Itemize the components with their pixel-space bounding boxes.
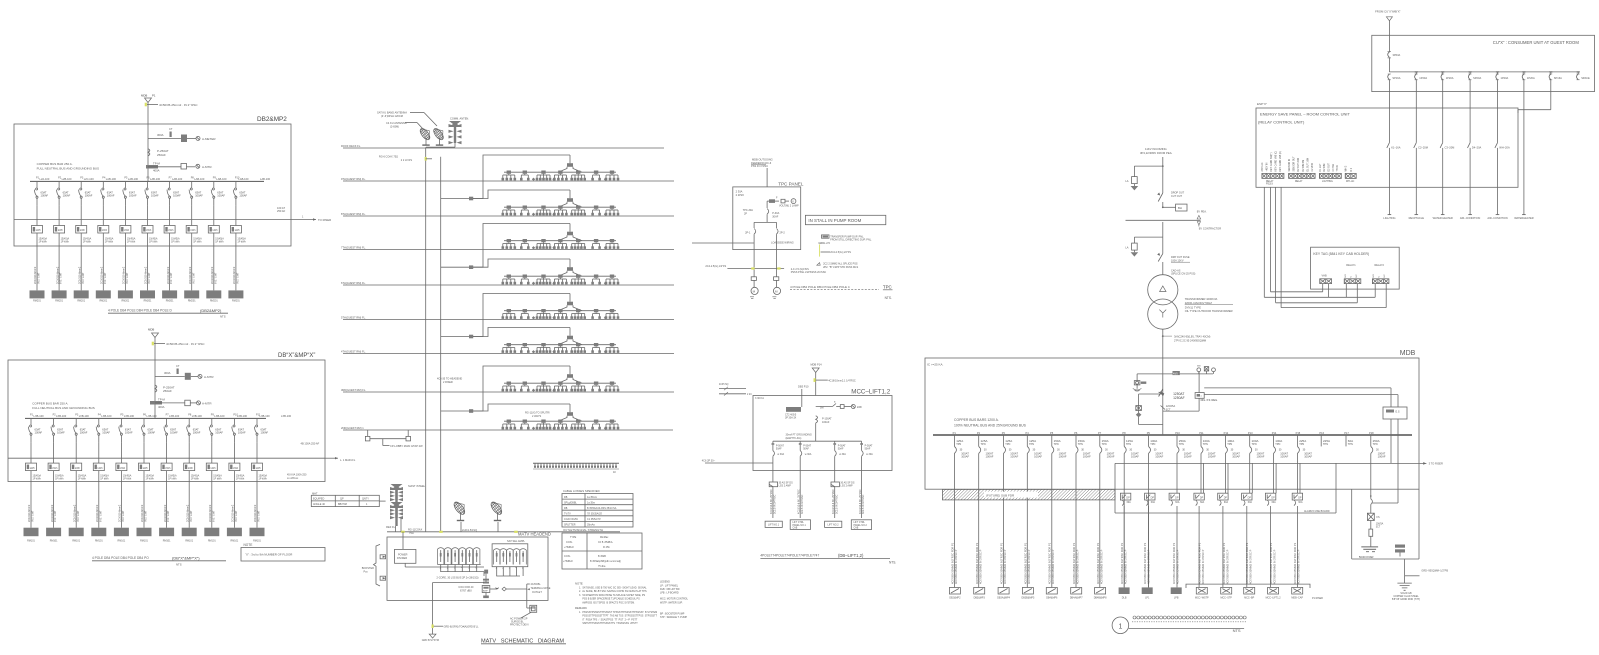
svg-text:1P20A: 1P20A (1527, 76, 1535, 80)
svg-text:BH: BH (1178, 206, 1182, 210)
svg-text:ANGLE 40: ANGLE 40 (313, 503, 326, 506)
svg-text:PSSS PSSL LSPSSSS 2C/SSC: PSSS PSSL LSPSSSS 2C/SSC (791, 271, 827, 274)
svg-text:4C/70/50-35MM2 IN2"RSC FDR P1: 4C/70/50-35MM2 IN2"RSC FDR P1 (1269, 542, 1273, 584)
svg-text:Fl 45b: Fl 45b (603, 546, 610, 549)
svg-text:LXB-100: LXB-100 (237, 414, 248, 418)
svg-text:KEY CARD SW(T): KEY CARD SW(T) (1270, 152, 1273, 171)
svg-text:100AF: 100AF (102, 431, 110, 435)
svg-text:IN 1" EMT: IN 1" EMT (148, 272, 151, 284)
svg-text:100AF: 100AF (125, 431, 133, 435)
MATV floor line 2ND(GUEST RM) 1 (341, 426, 673, 430)
MDB feeder breaker P6 (1074, 431, 1091, 458)
svg-text:100AF: 100AF (1378, 454, 1386, 458)
MDB sub distribution breaker 8 (1292, 493, 1303, 505)
svg-text:50/40 KVAR: 50/40 KVAR (1359, 555, 1374, 559)
svg-text:CP-LOBBY MAIN 4/TAP 2W: CP-LOBBY MAIN 4/TAP 2W (390, 444, 423, 448)
svg-text:QP: QP (340, 498, 344, 501)
PEA meter (1162, 204, 1207, 213)
CU branch breaker SP20A (1468, 72, 1481, 92)
svg-text:kWh: kWh (80, 229, 86, 232)
svg-text:+KEY IN: +KEY IN (1267, 162, 1269, 171)
svg-text:4C/70/50-35MM2 IN2"RSC FDR P1: 4C/70/50-35MM2 IN2"RSC FDR P1 (1172, 542, 1176, 584)
svg-text:RM201: RM201 (122, 300, 130, 303)
svg-text:DIG. P.F. REG.: DIG. P.F. REG. (1201, 398, 1219, 402)
TPC pump breaker 2 (777, 229, 786, 250)
svg-text:MinMax: MinMax (600, 536, 609, 539)
MDB outgoing cable label DB3&amp;MP3 (974, 542, 986, 599)
svg-text:SENSOR OUT: SENSOR OUT (1294, 156, 1296, 172)
svg-text:TPN: TPN (1054, 443, 1059, 446)
MDB metering instruments (1163, 366, 1216, 375)
MATV bottom outlet strip (533, 463, 619, 474)
svg-text:400A: 400A (158, 405, 165, 409)
svg-text:IN 1" EMT: IN 1" EMT (126, 272, 129, 284)
svg-text:DB2&MP2: DB2&MP2 (949, 597, 961, 600)
MDB feeder breaker P16 (1319, 431, 1330, 446)
svg-text:WH 2: WH 2 (1346, 165, 1348, 171)
svg-text:MCC–LIFT1,2: MCC–LIFT1,2 (851, 389, 890, 396)
MCC branch breaker 2 (799, 441, 812, 470)
DBX&MPX branch breaker P3 (74, 414, 90, 443)
svg-text:100AF: 100AF (1208, 454, 1216, 458)
MATV mid note 2 (525, 412, 550, 419)
svg-text:P1: P1 (152, 94, 156, 98)
svg-text:100AF: 100AF (1083, 454, 1091, 458)
DB2&MP2 outgoing cable 4 (96, 266, 111, 302)
svg-text:C3–20M: C3–20M (1445, 146, 1455, 150)
load label AIR&#8211;CONDITION (1460, 215, 1480, 221)
svg-text:2P-1: 2P-1 (745, 232, 751, 235)
svg-text:OIL TYPE OUTDOOR TRANSFORMER: OIL TYPE OUTDOOR TRANSFORMER (1185, 309, 1233, 313)
svg-text:4C/70/50-35MM2 IN 3"RSC P: 4C/70/50-35MM2 IN 3"RSC P (1099, 549, 1103, 584)
MDB outgoing cable label MCC&#8211;STP (1220, 542, 1232, 599)
MATV splitter tree floor 7 (473, 366, 619, 411)
MCC branch breaker 4 (860, 441, 873, 470)
feeder from MDB to DBX&MPX (148, 328, 205, 419)
svg-text:3C2.5 IN 3/4"RSC: 3C2.5 IN 3/4"RSC (862, 494, 865, 514)
svg-text:300A: 300A (164, 371, 171, 375)
svg-text:100AF: 100AF (961, 454, 969, 458)
svg-text:1P kWh: 1P kWh (215, 241, 224, 244)
svg-text:SSPSTTPSSSSTTPSSSSTTS TSSSSSS: SSPSTTPSSSSTTPSSSSTTS TSSSSSSS 2PSTT (579, 622, 638, 625)
svg-text:kWh: kWh (52, 467, 58, 470)
DB2&MP2 kWh meter 7 (164, 205, 180, 290)
MDB feeder breaker P14 (1272, 431, 1289, 458)
svg-text:100AF: 100AF (85, 194, 93, 198)
DB2&MP2 outgoing cable 8 (184, 266, 199, 302)
DBX&MPX outgoing cable 5 (114, 504, 129, 542)
svg-text:P6: P6 (1074, 431, 1078, 435)
svg-text:MCC–LIFT1,2: MCC–LIFT1,2 (1266, 597, 1282, 600)
svg-text:4C/70/50-35MM2 IN 3"RSC P: 4C/70/50-35MM2 IN 3"RSC P (1248, 549, 1252, 584)
svg-text:kWh: kWh (211, 467, 217, 470)
svg-text:1P kWh: 1P kWh (259, 478, 268, 481)
svg-text:SPLg/DBBL: SPLg/DBBL (564, 501, 577, 504)
svg-text:50AF: 50AF (838, 448, 844, 451)
svg-text:MDB: MDB (141, 94, 147, 98)
svg-text:2 2 LV RS: 2 2 LV RS (401, 159, 413, 162)
DBX&MPX branch breaker P7 (164, 414, 180, 443)
svg-text:RM101: RM101 (72, 540, 80, 543)
svg-text:(SPLICE CM 25 PSS): (SPLICE CM 25 PSS) (1171, 273, 1195, 276)
DB2&MP2 branch breaker P4 (101, 177, 117, 206)
svg-text:(DB“X”&MP“X”): (DB“X”&MP“X”) (172, 555, 200, 560)
svg-text:IN 1" EMT: IN 1" EMT (122, 510, 125, 522)
MATV title (481, 639, 566, 645)
MDB feeder breaker P8 (1122, 431, 1139, 458)
svg-text:TPN: TPN (1275, 443, 1280, 446)
antenna leader notes (377, 111, 437, 130)
satellite dish 2 (roof) (432, 125, 447, 145)
svg-text:D2 OUT 20M: D2 OUT 20M (1298, 158, 1300, 172)
svg-text:P1: P1 (953, 431, 957, 435)
outlet level table (562, 533, 642, 569)
svg-text:250AF: 250AF (163, 389, 172, 393)
MATV distribution trunk (440, 157, 442, 532)
svg-text:DYN11 TYPE: DYN11 TYPE (1185, 305, 1201, 309)
svg-text:LXB-100: LXB-100 (147, 414, 158, 418)
DBX&MPX branch breaker P8 (187, 414, 203, 443)
DB2&MP2 branch breaker P2 (57, 177, 72, 206)
MCC incoming stubs (719, 384, 764, 400)
svg-text:60A: 60A (1298, 501, 1303, 504)
svg-text:VOLT(M) 2 LAMP: VOLT(M) 2 LAMP (779, 205, 799, 208)
DBX&MPX outgoing cable 8 (182, 504, 197, 542)
MATV splitter tree floor 1 (473, 155, 619, 199)
svg-text:LAB-100: LAB-100 (216, 177, 227, 181)
svg-text:P9: P9 (1147, 431, 1151, 435)
svg-text:9TH(GUEST RM) FL.: 9TH(GUEST RM) FL. (341, 177, 366, 181)
svg-text:100AF: 100AF (1010, 454, 1018, 458)
svg-text:IN STALL IN PUMP ROOM: IN STALL IN PUMP ROOM (808, 218, 861, 223)
svg-text:LA: LA (1125, 246, 1128, 250)
MATV splitter tree floor 8 (473, 404, 619, 430)
DB2&MP2 spare label (260, 177, 271, 181)
HV disconnect switch 1 (1157, 192, 1184, 208)
svg-text:MHT: MHT (312, 492, 318, 495)
svg-text:100A 12KV: 100A 12KV (1171, 259, 1184, 262)
svg-text:1P kWh: 1P kWh (191, 478, 200, 481)
svg-text:30AF: 30AF (772, 215, 778, 218)
svg-text:1P kWh: 1P kWh (78, 478, 87, 481)
svg-text:PROTECT DEVI: PROTECT DEVI (510, 624, 529, 627)
svg-text:60A: 60A (1200, 501, 1205, 504)
svg-text:DB2&MP2: DB2&MP2 (257, 116, 287, 123)
load label LIGHTING (1383, 215, 1395, 221)
headend collector node (437, 570, 489, 580)
svg-text:A-MTR: A-MTR (202, 402, 212, 406)
svg-text:IN 1" EMT: IN 1" EMT (237, 272, 240, 284)
svg-text:w 30A: w 30A (866, 453, 873, 456)
svg-text:4B 100A 250 AF: 4B 100A 250 AF (301, 442, 320, 446)
svg-text:FULL NEUTRAL BUS AND GROUNDING: FULL NEUTRAL BUS AND GROUNDING BUS (32, 406, 94, 410)
svg-text:DB4B&MP8: DB4B&MP8 (1094, 597, 1107, 600)
svg-text:DB: DB (564, 496, 568, 499)
MATV splitter tree floor 2 (473, 190, 619, 216)
load label AIR&#8211;CONDITION (1487, 215, 1507, 221)
svg-text:TPN: TPN (1005, 443, 1010, 446)
svg-text:LXB-100: LXB-100 (101, 414, 112, 418)
svg-text:(FUTURE) SUB FDR: (FUTURE) SUB FDR (986, 494, 1015, 498)
svg-text:NC: NC (1356, 274, 1358, 278)
svg-text:IN 1" EMT: IN 1" EMT (104, 272, 107, 284)
svg-text:1250AF: 1250AF (1173, 396, 1185, 400)
svg-text:kWh: kWh (146, 229, 152, 232)
MDB feeder breaker P5 (1050, 431, 1067, 458)
MCC sub bus (773, 423, 862, 441)
MDB sub distribution breaker 6 (1242, 493, 1253, 505)
lift load box 1 (765, 521, 782, 527)
feeder from MDB to DB2&MP2 (141, 94, 198, 182)
headend output attenuator and splitter (490, 587, 527, 591)
MATV splitter tree floor 6 (473, 328, 619, 354)
svg-text:LXB-100: LXB-100 (281, 414, 292, 418)
svg-text:D4–20A: D4–20A (1472, 146, 1482, 150)
svg-text:QNTY: QNTY (362, 498, 369, 501)
sub row label (1304, 510, 1330, 513)
headend antenna mast (386, 484, 426, 532)
svg-text:RM101: RM101 (253, 540, 261, 543)
DBX&MPX busbar (25, 417, 266, 419)
capacitor fuse (1367, 513, 1383, 547)
capacitor bank enclosure (1352, 489, 1419, 559)
DB2&MP2 kWh meter 3 (76, 205, 92, 290)
svg-text:5/8"X8' GRND ROD (TYP): 5/8"X8' GRND ROD (TYP) (1392, 598, 1420, 601)
key tag box (1311, 247, 1400, 289)
DB2&MP2 kWh meter 4 (98, 205, 114, 290)
svg-text:100AF: 100AF (1059, 454, 1067, 458)
svg-text:4C/6CBL: 4C/6CBL (531, 583, 542, 586)
second breaker row box (1115, 462, 1443, 513)
DB2&MP2 outgoing cable 9 (206, 266, 221, 302)
svg-text:kWh: kWh (233, 467, 239, 470)
svg-text:KEY CARD VAB (C): KEY CARD VAB (C) (1274, 151, 1277, 172)
svg-text:NTS: NTS (1233, 628, 1241, 633)
svg-text:100AF: 100AF (1155, 454, 1163, 458)
ESP relay contact K1&#8211;16A (1387, 92, 1401, 215)
svg-text:WATER HEATER: WATER HEATER (1433, 216, 1453, 220)
svg-text:BB/76M: BB/76M (338, 503, 347, 506)
svg-text:RM101: RM101 (140, 540, 148, 543)
svg-text:2P2. "B" LSPP STD PASS MLS: 2P2. "B" LSPP STD PASS MLS (823, 266, 858, 269)
svg-text:RM101: RM101 (95, 540, 103, 543)
svg-text:TPC PANEL: TPC PANEL (778, 182, 804, 187)
svg-text:3. TA RISERTON SPACYRISE TA S: 3. TA RISERTON SPACYRISE TA SPLACE SCHET… (579, 594, 645, 597)
svg-text:kWh: kWh (124, 229, 130, 232)
svg-text:TPC: TPC (883, 284, 892, 289)
svg-text:LP1: LP1 (1145, 597, 1150, 600)
transformer T1 (1148, 275, 1233, 330)
MDB sub distribution breaker 4 (1194, 493, 1205, 505)
svg-text:1P kWh: 1P kWh (55, 478, 64, 481)
svg-text:4C/70/50-35MM2 IN 3"RSC P: 4C/70/50-35MM2 IN 3"RSC P (1175, 549, 1179, 584)
svg-text:60A: 60A (1224, 501, 1229, 504)
svg-text:SAT SEL AMPL: SAT SEL AMPL (507, 539, 526, 543)
ESP terminal group 3 (1320, 162, 1342, 182)
svg-text:IN 1" EMT: IN 1" EMT (77, 510, 80, 522)
svg-text:4C/70/50-35MM2 IN 3"RSC P: 4C/70/50-35MM2 IN 3"RSC P (1272, 549, 1276, 584)
svg-text:WSTP: WATER SUP.: WSTP: WATER SUP. (660, 602, 683, 605)
headend launch amplifier (458, 574, 489, 599)
DB2&MP2 outgoing cable 6 (140, 266, 155, 302)
svg-text:RM101: RM101 (50, 540, 58, 543)
svg-text:(DB–LIFT1,2): (DB–LIFT1,2) (838, 553, 864, 558)
svg-text:LAB-100: LAB-100 (260, 177, 271, 181)
svg-text:1F: 1F (613, 470, 616, 474)
svg-text:1P kWh: 1P kWh (123, 478, 132, 481)
MATV floor line 5TH(GUEST RM) FL. (341, 316, 674, 320)
DB2&MP2 branch breaker P10 (233, 177, 249, 206)
svg-text:100AF: 100AF (193, 431, 201, 435)
svg-text:P8: P8 (1122, 431, 1126, 435)
ESP relay contact C2&#8211;20M (1414, 92, 1428, 215)
svg-text:100AF: 100AF (261, 431, 269, 435)
MDB main CT (1161, 405, 1176, 411)
DB2&MP2 meter section divider (14, 219, 291, 221)
MCC main branch instruments (816, 401, 863, 410)
svg-text:TERMINA 2-RISE: TERMINA 2-RISE (531, 587, 551, 590)
svg-text:TPN: TPN (1126, 443, 1131, 446)
DBX&MPX branch 2 (150, 398, 212, 410)
MATV riser tap 1 (441, 197, 474, 201)
svg-text:40/5: 40/5 (1173, 372, 1178, 375)
svg-text:SP16A: SP16A (1554, 76, 1562, 80)
svg-text:1P kWh: 1P kWh (236, 478, 245, 481)
svg-text:3 TO RISER: 3 TO RISER (1429, 462, 1443, 466)
MDB feeder breaker P7 (1098, 431, 1115, 458)
svg-text:LIGHTING: LIGHTING (1383, 216, 1395, 220)
svg-text:NTS: NTS (220, 315, 226, 319)
DBX&MPX kWh meter 10 (229, 442, 245, 527)
DBX&MPX meter divider (8, 457, 325, 459)
svg-text:KEY CARD VAB (C): KEY CARD VAB (C) (1279, 151, 1282, 172)
svg-text:“X” : 3rd to 9th NUMBER OF FLO: “X” : 3rd to 9th NUMBER OF FLOOR (245, 553, 292, 557)
svg-text:1P kWh: 1P kWh (39, 241, 48, 244)
headend right notes (527, 583, 551, 594)
key tag terminal block relay1 (1344, 274, 1361, 284)
svg-text:AIR–CONDITION: AIR–CONDITION (1487, 216, 1507, 220)
svg-text:A-METER: A-METER (202, 137, 216, 141)
DBX&MPX branch breaker P1 (28, 414, 44, 443)
key tag terminal block relay2 (1372, 274, 1389, 284)
svg-text:100% NEUTRAL BUS AND 25%GROUND: 100% NEUTRAL BUS AND 25%GROUND BUS (954, 423, 1027, 427)
svg-text:ENERGY SAVE PANEL – ROOM CONTR: ENERGY SAVE PANEL – ROOM CONTROL UNIT (1260, 112, 1351, 117)
lift load box 2 (790, 520, 810, 530)
svg-text:RELAY: RELAY (1295, 180, 1303, 183)
svg-text:NOTE: NOTE (575, 582, 583, 586)
transfer pump right notes (817, 235, 872, 269)
svg-text:CUT OUT: CUT OUT (1171, 195, 1183, 198)
svg-text:COXL: COXL (566, 541, 573, 544)
svg-text:100AF: 100AF (173, 194, 181, 198)
svg-text:4C/70/50-35MM2 IN2"RSC FDR P1: 4C/70/50-35MM2 IN2"RSC FDR P1 (951, 542, 955, 584)
MATV 1st floor label (340, 458, 356, 462)
DB2&MP2 branch 2 (kwh meter) (146, 162, 212, 173)
MCC-LIFT enclosure (753, 389, 892, 471)
svg-text:IN 1" EMT: IN 1" EMT (60, 272, 63, 284)
svg-text:100AF: 100AF (195, 194, 203, 198)
booster bracket (362, 544, 386, 586)
svg-text:1a 35m: 1a 35m (587, 501, 595, 504)
svg-text:4C/70/50-35MM2 IN2"RSC FDR P1: 4C/70/50-35MM2 IN2"RSC FDR P1 (1222, 542, 1226, 584)
svg-text:TO RISER: TO RISER (318, 218, 331, 222)
ESP enclosure (1256, 108, 1518, 187)
TPC split node (754, 222, 776, 228)
ESP relay contact WH&#8211;20A (1495, 92, 1510, 215)
svg-text:75 dba: 75 dba (598, 565, 606, 568)
MDB earth link 1 (1133, 374, 1163, 391)
svg-text:100AF: 100AF (986, 454, 994, 458)
wires to ES control (1204, 388, 1398, 407)
svg-text:w 30A: w 30A (777, 453, 784, 456)
svg-text:IN 1" EMT: IN 1" EMT (190, 510, 193, 522)
svg-text:MCC–STP: MCC–STP (1220, 597, 1232, 600)
svg-text:TPN: TPN (1348, 443, 1353, 446)
supply boundary line (1126, 215, 1222, 230)
MDB outgoing drops group 1 (954, 458, 1148, 587)
MDB feeder breaker P10 (1175, 431, 1192, 458)
svg-text:TPN: TPN (1323, 443, 1328, 446)
svg-text:REF FL.: REF FL. (386, 525, 396, 529)
svg-text:4C/70/50-35MM2 IN 3"RSC P: 4C/70/50-35MM2 IN 3"RSC P (1027, 549, 1031, 584)
DB2&MP2 bottom title (108, 308, 228, 319)
svg-text:3C2.5 IN 3/4"RSC: 3C2.5 IN 3/4"RSC (801, 494, 804, 514)
svg-text:MDB: MDB (1400, 350, 1416, 357)
CU main breaker (1388, 52, 1401, 72)
svg-text:TPN: TPN (1373, 443, 1378, 446)
CU branch breaker 1P20A (1496, 72, 1509, 92)
DBX&MPX branch breaker P11 (254, 414, 270, 443)
svg-text:C1 35/5A/70’: C1 35/5A/70’ (587, 518, 601, 521)
svg-text:50AF: 50AF (803, 448, 809, 451)
svg-text:100AF: 100AF (822, 421, 830, 424)
svg-text:PSSSSTTPSSSSTTTPT TAS AB TSS: PSSSSTTPSSSSTTTPT TAS AB TSS STPSSSSTTPS… (579, 615, 658, 618)
CU branch breaker SP16A (1549, 72, 1562, 92)
svg-text:22000-416/240V 50HZ: 22000-416/240V 50HZ (1185, 301, 1213, 305)
svg-text:kWh: kWh (75, 467, 81, 470)
DBX&MPX spare label (281, 414, 292, 418)
svg-text:K1–16A: K1–16A (1391, 146, 1401, 150)
MDB outgoing cable label DB3B&amp;MP5 (1022, 542, 1035, 599)
svg-text:LEGEND: LEGEND (660, 581, 670, 584)
svg-text:RG-11(X) TO SPLITR/: RG-11(X) TO SPLITR/ (525, 412, 550, 415)
svg-text:4C50/35-25mm2 . IN 2" RSC: 4C50/35-25mm2 . IN 2" RSC (159, 103, 198, 107)
svg-text:3P 30A 3X: 3P 30A 3X (785, 416, 797, 419)
svg-text:kWh: kWh (213, 229, 219, 232)
svg-text:4C/70/50-35MM2 IN2"RSC FDR P1: 4C/70/50-35MM2 IN2"RSC FDR P1 (1293, 542, 1297, 584)
svg-text:LAB-100: LAB-100 (150, 177, 161, 181)
svg-text:COPPER BUS BAR 250 A.: COPPER BUS BAR 250 A. (37, 162, 73, 166)
MCC isolator 2 (831, 471, 855, 519)
svg-text:RG-6 COAX 75Ω: RG-6 COAX 75Ω (379, 156, 398, 159)
MDB outgoing cable label MCC&#8211;BP (1244, 542, 1255, 599)
DB2&MP2 branch breaker P3 (79, 177, 95, 206)
TPC rating note (736, 190, 745, 197)
DBX&MPX kWh meter 2 (48, 442, 64, 527)
svg-text:TPN: TPN (1078, 443, 1083, 446)
MATV floor line 3RD(GUEST RM) FL. (341, 388, 674, 392)
svg-text:L2A-100: L2A-100 (40, 177, 50, 181)
install note box (805, 215, 885, 224)
svg-text:kWh: kWh (98, 467, 104, 470)
TV antenna (roof) (449, 117, 470, 148)
svg-text:P10: P10 (1175, 431, 1180, 435)
svg-text:FROM CU“X”/MB“X”: FROM CU“X”/MB“X” (1375, 10, 1401, 14)
DB2&MP2 outgoing cable 3 (74, 266, 89, 302)
DB2&MP2 kWh meter 1 (32, 205, 48, 290)
svg-text:4C35 SQ: 4C35 SQ (719, 384, 729, 386)
svg-text:4 POLE DB4 POLE DB4 POLE DB4 P: 4 POLE DB4 POLE DB4 POLE DB4 PO (92, 556, 149, 560)
